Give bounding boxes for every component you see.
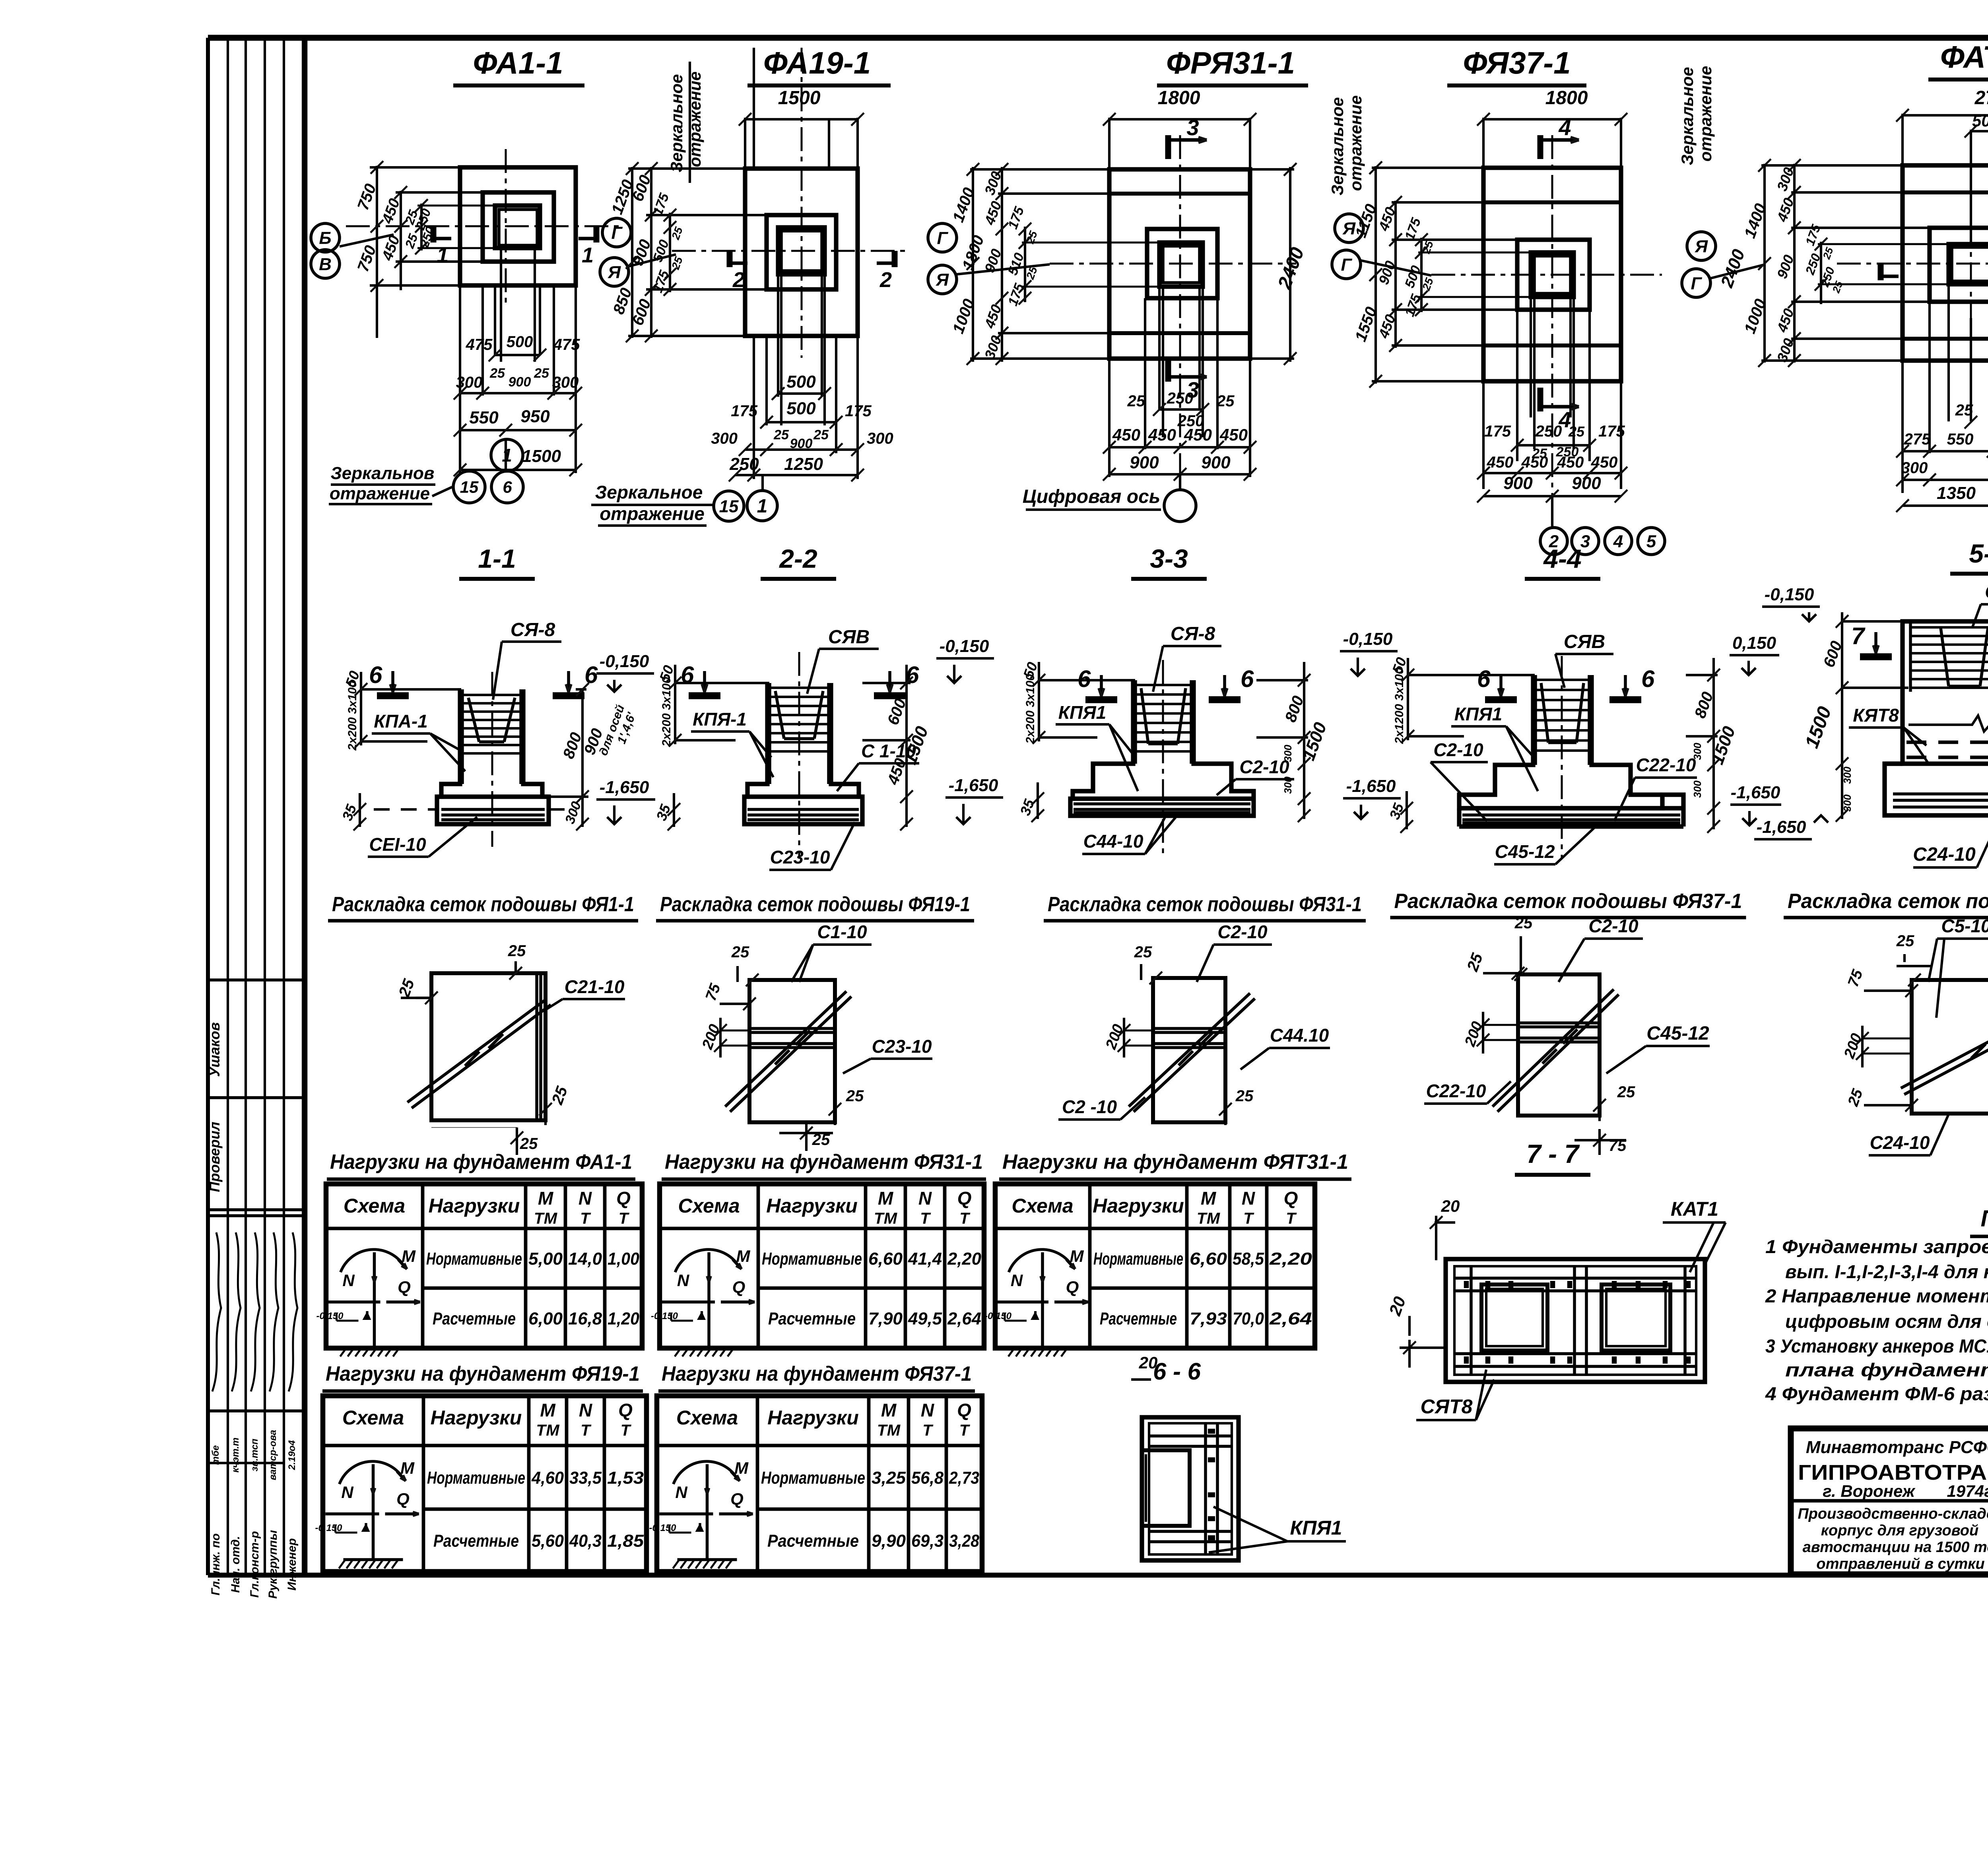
section 3-3 foundation profile xyxy=(1070,680,1254,816)
svg-text:5: 5 xyxy=(1646,532,1656,551)
plan FRYa31-1 top dimension 1800 xyxy=(1103,87,1256,171)
svg-text:1500: 1500 xyxy=(778,87,821,109)
mesh layout FAT31-1 label S5-10 xyxy=(1928,916,1988,1018)
plan FA19-1 outer pad rectangle xyxy=(745,169,858,336)
svg-text:Т: Т xyxy=(1243,1210,1254,1227)
plan FAT31-1 left column cup xyxy=(1949,244,1988,284)
mesh layout FYa37-1 dim 25 left xyxy=(1464,951,1524,980)
detail 6-6 rebar lines xyxy=(1149,1423,1232,1554)
svg-text:900: 900 xyxy=(790,436,813,451)
plan FYa37-1 axis circle Ya xyxy=(1335,214,1363,243)
svg-text:Цифровая ось: Цифровая ось xyxy=(1023,486,1161,507)
svg-text:250: 250 xyxy=(1167,390,1194,407)
svg-text:СЯВ: СЯВ xyxy=(828,627,870,648)
svg-text:6: 6 xyxy=(1477,666,1491,692)
plan FA19-1 axis circle G xyxy=(602,218,631,247)
notes title xyxy=(1970,1206,1988,1236)
svg-text:7: 7 xyxy=(1851,623,1866,649)
section 3-3 base mesh lines S44-10 xyxy=(1074,804,1250,813)
load table ФЯ19-1 title xyxy=(322,1362,643,1391)
svg-text:7,90: 7,90 xyxy=(868,1309,903,1329)
svg-text:ватср-ова: ватср-ова xyxy=(268,1430,278,1481)
svg-text:2х200 3х100: 2х200 3х100 xyxy=(346,681,359,751)
svg-text:4: 4 xyxy=(1558,115,1571,140)
svg-text:2.19о4: 2.19о4 xyxy=(287,1440,297,1471)
section 1-1 cup cavity xyxy=(468,698,515,742)
section 5-5 break lines xyxy=(1908,716,1988,750)
detail 7-7 label SYaT8 xyxy=(1416,1370,1494,1420)
section 5-5 foundation block outline xyxy=(1903,621,1988,764)
section 1-1 title xyxy=(459,544,535,579)
load table ФЯ37-1 header texts xyxy=(676,1400,971,1439)
detail 6-6 opening xyxy=(1142,1450,1190,1526)
svg-text:тбе: тбе xyxy=(210,1445,221,1465)
svg-text:175: 175 xyxy=(845,402,872,420)
section 4-4 right dims 800 1500 300 300 xyxy=(1686,658,1739,833)
plan FRYa31-1 left dim column 1400 1800 1000 xyxy=(949,163,988,365)
svg-text:20: 20 xyxy=(1441,1197,1460,1215)
svg-text:плана фундаментов.: плана фундаментов. xyxy=(1785,1359,1988,1380)
svg-text:С23-10: С23-10 xyxy=(770,847,830,867)
svg-text:Нормативные: Нормативные xyxy=(1093,1249,1183,1269)
mesh layout FA1-1 dim 25 bottom xyxy=(511,1127,538,1155)
plan FA1-1 section mark 1 right xyxy=(579,226,596,267)
svg-text:950: 950 xyxy=(520,407,550,426)
plan FYa37-1 top dimension 1800 xyxy=(1477,87,1627,169)
svg-text:6: 6 xyxy=(1641,666,1655,692)
plan FRYa31-1 axis circle bottom xyxy=(1164,474,1196,522)
plan FA1-1 column cup xyxy=(495,206,540,248)
load table ФЯ31-1 schema sketch xyxy=(651,1247,755,1356)
mesh layout FA1-1 mesh square S21-10 xyxy=(431,966,546,1127)
load table ФЯ19-1 grid xyxy=(323,1396,646,1572)
svg-text:М: М xyxy=(400,1459,415,1477)
plan FA19-1 left dimension column 175 500 175 xyxy=(650,191,685,296)
svg-text:2-2: 2-2 xyxy=(779,544,817,573)
load table ФЯТ31-1 title xyxy=(999,1151,1351,1179)
section 1-1 label KPA-1 xyxy=(372,711,465,771)
svg-text:25: 25 xyxy=(1235,1087,1254,1105)
mesh layout FA1-1 dim 25 left xyxy=(395,976,438,1004)
svg-text:-0,150: -0,150 xyxy=(651,1311,678,1321)
section 2-2 section mark 6 left xyxy=(681,662,720,696)
plan FA19-1 dimension row 250 1250 xyxy=(729,454,864,481)
section 5-5 elevation -0.150 xyxy=(1762,585,1820,621)
signature strip handwritten signatures xyxy=(212,1232,297,1391)
svg-text:25: 25 xyxy=(534,366,549,381)
plan FA1-1 axis circle V xyxy=(311,235,394,278)
svg-text:40,3: 40,3 xyxy=(569,1531,602,1551)
svg-text:175: 175 xyxy=(1484,423,1511,440)
plan FRYa31-1 dim row 450 450 450 450 xyxy=(1103,425,1256,454)
svg-text:2,20: 2,20 xyxy=(1269,1249,1312,1269)
title block org cell xyxy=(1798,1438,1988,1500)
mesh layout FA19-1 title xyxy=(656,893,974,921)
svg-text:КПЯ1: КПЯ1 xyxy=(1058,702,1106,723)
svg-text:7 - 7: 7 - 7 xyxy=(1526,1139,1580,1168)
svg-text:ТМ: ТМ xyxy=(1197,1210,1221,1227)
svg-text:1250: 1250 xyxy=(784,454,823,474)
svg-text:25: 25 xyxy=(1568,423,1585,440)
plan FA19-1 dimension row 175 500 175 xyxy=(731,399,872,429)
section 4-4 label S22-10 xyxy=(1614,755,1697,821)
svg-text:отражение: отражение xyxy=(330,484,430,503)
svg-text:Q: Q xyxy=(957,1400,971,1420)
section 4-4 centerline xyxy=(1561,656,1563,859)
plan FRYa31-1 section mark 3 top xyxy=(1168,115,1207,159)
svg-text:25: 25 xyxy=(1617,1083,1635,1101)
svg-text:автостанции на 1500 тонн: автостанции на 1500 тонн xyxy=(1803,1539,1988,1556)
section 2-2 title xyxy=(761,544,836,579)
svg-text:450: 450 xyxy=(1184,425,1212,444)
svg-text:М: М xyxy=(538,1188,554,1209)
svg-text:16,8: 16,8 xyxy=(568,1309,602,1329)
svg-text:Я: Я xyxy=(1695,237,1708,256)
plan FAT31-1 left small dims 175 250 25 xyxy=(1802,222,1950,304)
svg-text:отражение: отражение xyxy=(1346,95,1365,191)
section 2-2 label KPYa-1 xyxy=(691,709,773,777)
mesh layout FA1-1 diagonal reference xyxy=(408,999,551,1108)
plan FA1-1 mirror note xyxy=(329,464,452,504)
section 2-2 label S1-10 xyxy=(837,741,919,791)
load table ФЯТ31-1 schema sketch xyxy=(984,1247,1088,1356)
svg-text:М: М xyxy=(734,1459,749,1477)
svg-text:5-5: 5-5 xyxy=(1969,539,1988,568)
load table ФА1-1 title xyxy=(327,1151,635,1179)
svg-text:Нормативные: Нормативные xyxy=(426,1249,522,1269)
mesh layout FA1-1 dim 25 top xyxy=(508,942,526,980)
load table ФЯТ31-1 design row xyxy=(1100,1309,1312,1329)
plan FRYa31-1 left small dims 175 510 175 25 xyxy=(1005,204,1161,308)
svg-text:Q: Q xyxy=(957,1188,972,1209)
plan FA1-1 axis circle B xyxy=(311,223,340,252)
svg-text:Зеркальное: Зеркальное xyxy=(595,482,703,503)
svg-text:15: 15 xyxy=(719,497,739,516)
mesh layout FA19-1 dim 200 left xyxy=(699,1018,751,1058)
svg-text:450: 450 xyxy=(1112,425,1140,444)
svg-text:Г: Г xyxy=(1341,255,1352,274)
plan FA1-1 outer pad rectangle xyxy=(460,167,576,285)
mesh layout FA31-1 dim 25 right xyxy=(1219,1087,1254,1125)
svg-text:С45-12: С45-12 xyxy=(1646,1023,1709,1044)
svg-text:9,90: 9,90 xyxy=(872,1531,906,1551)
svg-text:СЯ-8: СЯ-8 xyxy=(1171,623,1215,644)
svg-text:Нагрузки: Нагрузки xyxy=(431,1407,522,1429)
plan FA19-1 pedestal rectangle xyxy=(767,215,836,289)
svg-text:Q: Q xyxy=(616,1188,631,1209)
section 1-1 foundation profile xyxy=(437,689,549,824)
plan FYa37-1 axis circles 2 3 4 5 xyxy=(1540,496,1665,555)
svg-text:СЯ-8: СЯ-8 xyxy=(511,619,555,640)
svg-text:1,85: 1,85 xyxy=(607,1531,644,1551)
svg-text:ФАТ31-1: ФАТ31-1 xyxy=(1940,39,1988,74)
svg-text:С24-10: С24-10 xyxy=(1913,844,1976,865)
mesh layout FA19-1 mesh rect S1-10 xyxy=(749,980,835,1122)
svg-text:N: N xyxy=(677,1271,690,1290)
svg-text:25: 25 xyxy=(1896,932,1914,950)
svg-text:С44.10: С44.10 xyxy=(1270,1025,1329,1046)
plan FRYa31-1 left dim column 300 450 900 450 300 xyxy=(970,163,1111,365)
svg-text:300: 300 xyxy=(1691,743,1703,760)
svg-text:М: М xyxy=(878,1188,894,1209)
svg-text:Нач. отд.: Нач. отд. xyxy=(229,1536,242,1593)
mesh layout FYa37-1 label S2-10 top xyxy=(1559,916,1643,982)
svg-text:ФА1-1: ФА1-1 xyxy=(473,45,563,80)
detail 6-6 dim 20 top xyxy=(1131,1353,1157,1380)
svg-text:N: N xyxy=(579,1400,592,1420)
svg-text:Производственно-складской: Производственно-складской xyxy=(1798,1506,1988,1522)
detail 7-7 rebar lines xyxy=(1454,1266,1696,1375)
section 4-4 elevation 0.150 right xyxy=(1730,633,1779,675)
svg-text:Минавтотранс РСФСР: Минавтотранс РСФСР xyxy=(1806,1438,1988,1457)
plan view FYa37-1 title xyxy=(1447,45,1586,85)
plan FRYa31-1 dim row 900 900 xyxy=(1103,453,1256,481)
mesh layout FYa37-1 dim 75 bottom xyxy=(1574,1129,1627,1155)
svg-text:Я: Я xyxy=(608,262,621,282)
svg-text:-0,150: -0,150 xyxy=(649,1523,676,1533)
svg-text:Нагрузки: Нагрузки xyxy=(766,1195,858,1217)
svg-text:Зеркальное: Зеркальное xyxy=(1678,67,1697,165)
svg-text:450: 450 xyxy=(1487,454,1514,471)
signature strip middle annotations rotated xyxy=(210,1430,297,1481)
plan FRYa31-1 pedestal rectangle xyxy=(1147,229,1217,298)
section 2-2 foundation profile xyxy=(744,683,862,824)
plan FRYa31-1 column cup xyxy=(1159,243,1203,287)
mesh layout FA1-1 title xyxy=(328,893,638,921)
plan FYa37-1 section mark 4 bottom xyxy=(1540,388,1579,432)
svg-text:ФЯ37-1: ФЯ37-1 xyxy=(1463,45,1571,80)
svg-text:900: 900 xyxy=(509,374,531,390)
svg-text:Расчетные: Расчетные xyxy=(768,1309,856,1329)
detail 7-7 label KAT1 xyxy=(1663,1198,1726,1272)
svg-text:В: В xyxy=(319,254,332,274)
plan view FAT31-1 title xyxy=(1928,39,1988,80)
load table ФЯ31-1 grid xyxy=(660,1184,984,1348)
section 5-5 left dims 600 1500 300 300 xyxy=(1801,612,1908,822)
svg-text:300: 300 xyxy=(1691,780,1703,798)
load table ФЯ37-1 title xyxy=(658,1362,975,1391)
svg-text:N: N xyxy=(675,1483,688,1502)
svg-text:1350: 1350 xyxy=(1937,483,1976,503)
section 1-1 label S21-10 xyxy=(368,817,477,857)
svg-text:56,8: 56,8 xyxy=(911,1468,944,1488)
section 4-4 section mark 6 right xyxy=(1609,666,1655,700)
svg-text:КПЯ-1: КПЯ-1 xyxy=(693,709,747,730)
svg-text:900: 900 xyxy=(1130,453,1159,472)
load table ФЯТ31-1 normative row xyxy=(1093,1249,1312,1269)
svg-text:-0,150: -0,150 xyxy=(316,1311,344,1321)
svg-text:КЯТ8: КЯТ8 xyxy=(1853,705,1899,726)
svg-text:300: 300 xyxy=(1841,794,1853,812)
svg-text:500: 500 xyxy=(786,399,816,418)
plan FYa37-1 left dim column 450 900 450 xyxy=(1372,168,1519,381)
section 3-3 label SYa-8 xyxy=(1153,623,1221,692)
svg-text:-0,150: -0,150 xyxy=(315,1523,342,1533)
plan FRYa31-1 pad band lines xyxy=(1109,194,1250,333)
section 3-3 title xyxy=(1131,544,1207,579)
svg-text:СЕI-10: СЕI-10 xyxy=(369,834,426,855)
svg-text:Нагрузки на фундамент ФЯ19-1: Нагрузки на фундамент ФЯ19-1 xyxy=(326,1362,640,1385)
signature strip row lines xyxy=(208,980,305,1463)
title block grid xyxy=(1791,1428,1988,1574)
svg-text:4-4: 4-4 xyxy=(1543,544,1581,573)
svg-text:Схема: Схема xyxy=(342,1407,404,1429)
svg-text:Инженер: Инженер xyxy=(285,1538,299,1591)
svg-text:25: 25 xyxy=(1127,392,1145,410)
svg-text:900: 900 xyxy=(1572,473,1601,493)
mesh layout FYa37-1 dim 25 right xyxy=(1593,1083,1635,1121)
svg-text:1: 1 xyxy=(437,243,448,267)
svg-text:500: 500 xyxy=(507,333,533,351)
plan FAT31-1 axis circle G xyxy=(1682,264,1765,297)
plan FAT31-1 dim row 1350 1350 xyxy=(1896,483,1988,512)
svg-text:450: 450 xyxy=(1521,454,1548,471)
plan FAT31-1 left dim column 1400 1000 2400 xyxy=(1717,159,1771,367)
svg-text:Нормативные: Нормативные xyxy=(762,1249,862,1269)
section 5-5 base mesh lines S24-10 S4-10 xyxy=(1893,794,1988,807)
svg-text:2,73: 2,73 xyxy=(949,1468,979,1488)
svg-text:С2 -10: С2 -10 xyxy=(1062,1096,1117,1117)
section 4-4 label SYaV xyxy=(1555,631,1613,688)
svg-text:СЯТ8: СЯТ8 xyxy=(1985,582,1988,603)
svg-text:С44-10: С44-10 xyxy=(1083,831,1143,852)
load table ФЯ31-1 title xyxy=(662,1151,986,1179)
svg-text:58,5: 58,5 xyxy=(1233,1249,1264,1269)
mesh layout FAT31-1 dim 25 left bottom xyxy=(1844,1087,1918,1112)
mesh layout FA19-1 label S1-10 xyxy=(791,922,872,982)
svg-text:Q: Q xyxy=(1284,1188,1298,1209)
mesh layout FYa37-1 diagonal reference xyxy=(1493,990,1619,1112)
svg-text:6,60: 6,60 xyxy=(1190,1249,1227,1269)
section 3-3 section mark 6 left xyxy=(1077,666,1117,700)
svg-text:Т: Т xyxy=(959,1422,971,1439)
plan FA1-1 axis circle 6 xyxy=(491,471,523,503)
mesh layout FA31-1 dim 200 left xyxy=(1103,1018,1155,1058)
svg-text:1800: 1800 xyxy=(1158,87,1200,109)
plan FA19-1 axis circle 15 xyxy=(714,491,744,521)
plan FYa37-1 dim row 900 900 xyxy=(1477,473,1627,503)
detail 7-7 left opening xyxy=(1481,1285,1547,1351)
svg-text:6: 6 xyxy=(503,478,512,497)
detail 6-6 plate outline KPYa1 xyxy=(1142,1417,1239,1560)
svg-text:3 Установку анкеров МС1 и МС2: 3 Установку анкеров МС1 и МС2 производит… xyxy=(1765,1335,1988,1356)
svg-text:М: М xyxy=(402,1247,416,1265)
svg-text:2,64: 2,64 xyxy=(1269,1309,1312,1329)
svg-text:25: 25 xyxy=(773,427,789,442)
svg-text:отражение: отражение xyxy=(685,72,704,167)
section 1-1 label SYa-8 xyxy=(493,619,561,700)
svg-text:7,93: 7,93 xyxy=(1190,1309,1227,1329)
svg-text:6,00: 6,00 xyxy=(528,1309,563,1329)
svg-text:N: N xyxy=(1242,1188,1255,1209)
load table ФЯ19-1 header texts xyxy=(342,1400,633,1439)
svg-text:С2-10: С2-10 xyxy=(1433,739,1483,760)
detail 6-6 label KPYa1 xyxy=(1209,1507,1346,1552)
svg-text:Нормативные: Нормативные xyxy=(427,1468,525,1488)
plan FAT31-1 pad band lines xyxy=(1903,192,1988,339)
svg-text:1: 1 xyxy=(757,496,768,517)
plan FRYa31-1 right dim 2400 xyxy=(1248,163,1309,365)
mesh layout FA31-1 label S2-10 top xyxy=(1197,922,1272,982)
mesh layout FAT31-1 mesh rect S24-10 xyxy=(1912,980,1988,1114)
load table ФА1-1 normative row xyxy=(426,1249,639,1269)
svg-text:-1,650: -1,650 xyxy=(1757,817,1806,837)
left margin line xyxy=(303,38,308,1575)
svg-text:25: 25 xyxy=(520,1135,538,1153)
drawing sheet outer frame xyxy=(208,38,1988,1575)
plan FRYa31-1 numeric axis note xyxy=(1023,486,1161,510)
svg-text:300: 300 xyxy=(1282,745,1294,762)
svg-text:Нагрузки на фундамент ФЯТ31-1: Нагрузки на фундамент ФЯТ31-1 xyxy=(1002,1151,1348,1174)
svg-text:Нагрузки: Нагрузки xyxy=(429,1195,520,1217)
section 4-4 label S45-12 xyxy=(1494,828,1594,864)
mesh layout FA19-1 diagonal reference xyxy=(725,991,851,1112)
load table ФА1-1 design row xyxy=(433,1309,639,1329)
svg-text:1,53: 1,53 xyxy=(607,1468,644,1488)
plan FA1-1 projection lines below xyxy=(460,248,576,473)
plan FRYa31-1 projection lines below xyxy=(1109,287,1250,477)
plan FYa37-1 left small dims 175 500 175 xyxy=(1402,215,1571,318)
svg-text:г. Воронеж: г. Воронеж xyxy=(1823,1482,1916,1500)
svg-text:Нагрузки на фундамент ФЯ37-1: Нагрузки на фундамент ФЯ37-1 xyxy=(662,1362,972,1385)
section 3-3 left dims 50 2x200 3x100 35 xyxy=(1017,660,1135,822)
plan FA19-1 column cup xyxy=(778,227,825,274)
svg-text:СЯТ8: СЯТ8 xyxy=(1421,1395,1473,1418)
svg-text:С23-10: С23-10 xyxy=(872,1036,932,1057)
section 4-4 base mesh lines S45-12 xyxy=(1462,815,1680,823)
svg-text:2: 2 xyxy=(879,268,892,292)
section 5-5 title xyxy=(1950,539,1988,574)
svg-text:900: 900 xyxy=(1201,453,1231,472)
svg-text:14,0: 14,0 xyxy=(568,1249,602,1269)
load table ФЯ37-1 schema sketch xyxy=(649,1459,753,1568)
svg-text:Раскладка сеток подошвы ФЯ37-1: Раскладка сеток подошвы ФЯ37-1 xyxy=(1394,890,1742,913)
plan FRYa31-1 section mark 3 bottom xyxy=(1168,358,1207,402)
load table ФА1-1 grid xyxy=(326,1184,642,1348)
svg-text:цифровым осям для остальных фу: цифровым осям для остальных фундаментов. xyxy=(1785,1311,1988,1332)
plan FYa37-1 pedestal rectangle xyxy=(1517,240,1590,310)
svg-text:2х200 3х100: 2х200 3х100 xyxy=(660,677,673,747)
svg-text:41,4: 41,4 xyxy=(908,1249,942,1269)
plan FA19-1 centerlines xyxy=(672,48,911,358)
svg-text:Т: Т xyxy=(580,1210,591,1227)
svg-text:1: 1 xyxy=(502,445,512,466)
svg-text:4,60: 4,60 xyxy=(531,1468,564,1488)
load table ФА1-1 schema sketch xyxy=(316,1247,420,1356)
plan FA1-1 left dimension column 450/450 xyxy=(379,186,483,290)
plan FA19-1 projection lines below xyxy=(754,274,858,479)
mesh layout FAT31-1 dim 25 top xyxy=(1896,932,1932,986)
svg-text:ТМ: ТМ xyxy=(536,1422,560,1439)
section 1-1 elevation -1.650 xyxy=(596,778,655,824)
svg-text:450: 450 xyxy=(1148,425,1176,444)
section 5-5 label KYaT8 xyxy=(1849,705,1928,763)
section 3-3 elevation -1,650 xyxy=(1343,776,1401,819)
plan FAT31-1 top dimension 500 500 xyxy=(1965,111,1988,246)
section 4-4 label S2-10 left xyxy=(1431,739,1488,821)
svg-text:475: 475 xyxy=(553,336,580,353)
plan FA19-1 left dimension column 600 900 600 xyxy=(628,162,769,342)
plan FYa37-1 dim row 450 450 450 450 xyxy=(1477,454,1627,479)
svg-text:300: 300 xyxy=(456,374,483,391)
section 2-2 right dims 600 1500 450 xyxy=(862,665,932,830)
plan FA1-1 axis circle 15 xyxy=(453,471,485,503)
mesh layout FA31-1 title xyxy=(1044,893,1366,921)
svg-text:3,28: 3,28 xyxy=(949,1531,979,1551)
svg-text:КПЯ1: КПЯ1 xyxy=(1290,1517,1342,1539)
detail 7-7 right opening xyxy=(1602,1285,1670,1351)
svg-text:ФРЯ31-1: ФРЯ31-1 xyxy=(1166,45,1295,80)
